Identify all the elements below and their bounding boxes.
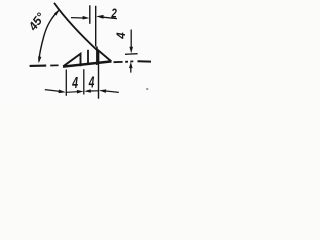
svg-text:4: 4 [72,75,79,92]
svg-text:4: 4 [88,75,94,92]
svg-text:2: 2 [111,5,118,20]
svg-text:4: 4 [116,32,128,40]
